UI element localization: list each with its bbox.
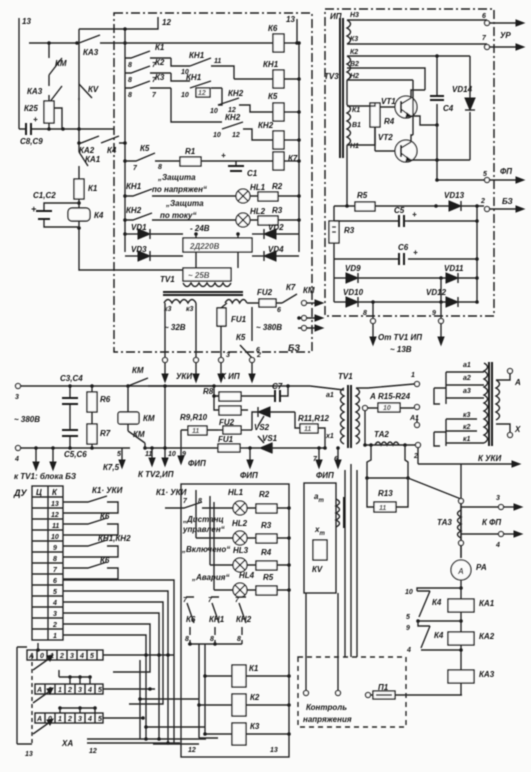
dashed box BZ (protection block) [114,13,312,352]
svg-text:FU1: FU1 [231,315,247,324]
svg-text:11: 11 [304,426,311,433]
svg-text:по напряжен“: по напряжен“ [152,185,207,194]
relay coil KN1 [234,60,299,88]
terminals in kontrol box [304,691,309,696]
terminal 3 K IP [218,352,230,382]
contact KN1 (10-11) [181,51,234,79]
left bracket XA [17,647,33,758]
svg-text:R13: R13 [378,489,393,498]
node 13 (left rail) [19,17,31,129]
svg-text:2: 2 [256,352,261,359]
terminal circle top TA3 [459,499,464,504]
svg-text:К1: К1 [249,664,259,673]
diode VD12 [426,288,479,307]
svg-text:К25: К25 [24,104,38,113]
svg-text:3: 3 [496,495,500,502]
resistor R9,R10 [180,413,218,435]
diode VD9 [334,264,441,283]
capacitor C8,C9 [19,115,44,146]
svg-text:8: 8 [185,636,189,643]
left rail x334 [334,206,347,302]
svg-text:КМ: КМ [303,286,315,295]
svg-text:8: 8 [128,77,132,84]
resistor K25 [24,95,62,129]
terminal 2 BZ [480,197,524,212]
svg-text:ФИП: ФИП [316,471,334,480]
svg-text:„Защита: „Защита [157,173,196,182]
svg-text:4: 4 [495,542,500,549]
contact K6 loop [63,512,118,535]
diode VD3 [125,245,183,261]
contact K4 lower [406,619,461,654]
svg-text:VS2: VS2 [254,423,270,432]
wire winding taps down [165,303,196,357]
svg-text:11: 11 [214,58,221,65]
transistor VT1 [380,90,425,118]
svg-text:HL1: HL1 [228,488,244,497]
svg-text:5: 5 [90,653,94,660]
resistor R15-R24 [363,392,420,412]
svg-text:КН1: КН1 [263,60,279,69]
arrows down FIP 3 [313,446,341,480]
svg-text:В1: В1 [352,122,361,129]
thyristor VS2 [252,407,295,432]
TA2 bridge wires [365,445,410,480]
contact KN2 bottom [235,597,252,643]
svg-text:КА1: КА1 [85,155,101,164]
svg-text:4: 4 [406,647,411,654]
svg-text:КМ: КМ [143,414,155,423]
resistor R8b lower [212,394,248,415]
svg-text:КА3: КА3 [27,87,43,96]
mech link dashed [31,655,33,745]
TV3 winding K2-V2-N2 [347,49,359,80]
contact KA2 on y143 [79,136,99,155]
svg-text:8: 8 [363,310,367,317]
fuse P1 [366,683,463,699]
svg-text:А: А [28,653,34,660]
lamp HL2 ind [196,519,248,545]
svg-text:К5: К5 [268,92,278,101]
svg-text:„Авария“: „Авария“ [191,573,229,582]
switch arrow 3 [33,722,50,734]
fuse FU1 mid [218,435,246,452]
resistor R3 vertical [329,221,355,243]
wire y129 [44,128,114,130]
svg-text:+: + [33,115,38,124]
terminal UKI circles [163,358,199,363]
svg-text:3: 3 [53,611,57,618]
svg-text:КМ: КМ [133,430,145,439]
svg-text:УКИ: УКИ [176,372,192,381]
svg-text:+: + [31,204,37,214]
wire KA2 to KA3 [460,645,462,670]
contact K4 on y143 [101,136,125,155]
bottom rail wires [17,737,206,755]
vertical drop wires mid [345,464,357,657]
relay coil K2 bottom [232,693,291,716]
contact KV [79,84,99,100]
arrow down K TV2 IP [138,446,174,479]
contact KN1 lamp row [125,182,236,196]
svg-text:К ФП: К ФП [482,518,501,527]
inner verticals left of coils [196,490,232,738]
svg-text:3: 3 [78,687,82,694]
wire row6 staircase [63,580,174,743]
svg-text:КV: КV [88,85,99,94]
svg-text:КА2: КА2 [79,146,95,155]
svg-text:13: 13 [270,747,278,754]
svg-text:От ТV1 ИП: От ТV1 ИП [378,333,422,342]
connector DU table [13,486,63,640]
svg-text:а1: а1 [463,362,471,369]
node 12 stub [125,17,171,29]
svg-text:ФИП: ФИП [188,459,206,468]
svg-text:2: 2 [413,453,418,460]
svg-text:К4: К4 [432,598,442,607]
svg-text:Н2: Н2 [350,73,359,80]
svg-text:13: 13 [22,17,31,26]
svg-text:к1: к1 [463,436,471,443]
contact K3 [125,73,171,99]
svg-text:к3: к3 [186,306,194,313]
svg-text:R6: R6 [100,395,111,404]
svg-text:К5: К5 [236,333,246,342]
svg-text:КА3: КА3 [479,670,495,679]
svg-text:1: 1 [58,687,62,694]
svg-text:а1: а1 [326,392,334,399]
svg-text:~ 380В: ~ 380В [14,415,40,424]
svg-text:10: 10 [383,405,391,412]
node 13 entering box top [286,15,297,43]
current transformer TA2 [363,410,420,460]
current transformer TA3 [437,504,464,558]
wire 2D220V to TV1 [196,234,238,268]
transistor VT2 [375,80,417,162]
resistor R3 [250,206,299,225]
junction mid rails [439,276,443,280]
relay coil KA1 [448,599,495,612]
wire K UKI [418,448,520,467]
numbers on wire y448 [145,451,186,458]
text protection voltage [152,173,207,194]
svg-text:А: А [36,716,42,723]
svg-text:ТА2: ТА2 [374,430,389,439]
contact KM [49,43,67,83]
bus vertical x79 [78,29,80,152]
contact KN1,KN2 loop [63,534,131,557]
bottom rails [140,660,205,739]
svg-text:К1: К1 [352,107,360,114]
svg-text:5: 5 [117,451,121,458]
wire KN1 row [218,88,222,105]
branch 3 K FP [461,495,522,510]
switch arrow 1 [33,658,50,670]
svg-text:а3: а3 [463,388,471,395]
fuse FU2 mid [218,418,252,434]
svg-text:10: 10 [213,132,221,139]
resistor R5 ind [247,573,291,595]
arrows down C5,C6 [33,446,87,470]
svg-text:3: 3 [15,394,19,401]
svg-text:С7: С7 [272,382,283,391]
relay coil K6 [268,24,299,52]
svg-text:К3: К3 [350,36,358,43]
svg-text:2: 2 [480,198,485,205]
wire top horizontal y43 [29,42,79,44]
svg-text:Х: Х [514,425,521,434]
contact KN2 lamp row [125,206,236,220]
wire TV1 sec top to terminal 1 [356,372,420,388]
wire K1 row to KN1 [171,58,190,66]
wire row2 staircase [63,624,150,672]
svg-text:- 24В: - 24В [190,224,210,233]
svg-text:13: 13 [25,751,33,758]
wire emitters to FP [437,125,470,180]
svg-text:R3: R3 [261,521,272,530]
wire y29 to box1 [79,28,125,30]
terminal 7 UR [482,31,524,50]
contact K2 [125,58,171,84]
svg-text:к ТV1: блока БЗ: к ТV1: блока БЗ [14,472,76,481]
svg-text:КН1: КН1 [126,182,142,191]
svg-text:КМ: КМ [132,366,144,375]
svg-text:5: 5 [98,687,102,694]
svg-text:R7: R7 [100,429,111,438]
capacitor C6 [334,243,477,265]
bus PA vertical [460,464,462,558]
contact KN1 (10-12) [171,73,222,99]
svg-text:КН2: КН2 [225,113,241,122]
svg-text:R3: R3 [344,226,355,235]
svg-text:К6: К6 [268,24,278,33]
svg-text:К ТV2,ИП: К ТV2,ИП [138,470,174,479]
svg-text:1: 1 [411,372,415,379]
relay coil K7 [273,152,299,170]
svg-text:Н3: Н3 [350,12,359,19]
block 2D220V [183,238,252,252]
resistor R8 [203,384,268,401]
wire y43 through box [114,42,273,44]
lamp HL4 ind [214,571,255,597]
fuse FU2 [247,288,282,307]
text Ot TV1 IP [378,333,422,354]
svg-text:КМ: КМ [55,59,67,68]
relay coil KN2 [258,121,299,149]
svg-text:С8,С9: С8,С9 [20,137,43,146]
svg-text:FU1: FU1 [218,435,234,444]
svg-text:VD9: VD9 [345,264,361,273]
wire row5 staircase [63,591,168,743]
contact K6 bottom [183,597,196,643]
svg-text:8: 8 [128,92,132,99]
box a_m x_m winding [304,483,344,593]
svg-text:HL2: HL2 [250,207,266,216]
svg-text:КН1: КН1 [186,73,202,82]
svg-text:11: 11 [192,428,199,435]
svg-text:К1: К1 [88,184,98,193]
svg-text:R2: R2 [259,490,270,499]
svg-text:4: 4 [87,716,92,723]
relay coil KM [118,386,155,431]
diode VD4 [252,245,299,261]
wire KA3 down to P1 [460,683,462,695]
svg-text:КН2: КН2 [258,121,274,130]
capacitor C4 [430,56,454,127]
svg-text:+: + [221,151,226,160]
relay coil K1 bottom [232,664,291,687]
svg-text:2: 2 [52,622,57,629]
svg-text:С1: С1 [247,169,258,178]
svg-text:VS1: VS1 [262,434,278,443]
svg-text:+: + [413,248,418,257]
arrows down FIP 1 [178,430,206,468]
relay coil K5 [268,92,299,121]
resistor R13 [367,478,408,512]
resistor R6 [87,384,111,424]
box indication block [181,484,289,757]
svg-text:РА: РА [476,563,487,572]
wire row3 staircase [63,613,159,739]
svg-text:К7,5: К7,5 [103,463,120,472]
svg-text:R5: R5 [357,191,368,200]
svg-text:VD12: VD12 [426,288,447,297]
svg-text:R1: R1 [185,147,196,156]
resistor R2 [250,182,299,201]
svg-text:К2: К2 [350,49,358,56]
lamp HL3 ind [210,546,249,572]
svg-text:С5,С6: С5,С6 [64,450,87,459]
svg-text:1: 1 [53,633,57,640]
capacitor C1,C2 [31,191,79,227]
svg-text:R4: R4 [261,548,272,557]
svg-text:9: 9 [432,310,436,317]
svg-text:К7: К7 [286,283,296,292]
svg-text:БЗ: БЗ [288,343,300,353]
terminal 4 input [14,446,130,464]
wire to PA bus diagonal [408,478,461,499]
svg-text:VD13: VD13 [444,191,465,200]
svg-text:12: 12 [198,90,206,97]
rail right x299 [298,43,300,252]
svg-text:8: 8 [53,556,57,563]
wire PA to KA1 [460,580,462,599]
diode VD14 [435,54,475,160]
svg-text:5: 5 [98,716,102,723]
text protection current [160,199,204,220]
svg-text:2: 2 [67,716,72,723]
wire row4 staircase [63,602,163,704]
svg-text:К УКИ: К УКИ [478,454,501,463]
svg-text:6: 6 [482,13,486,20]
svg-text:ТV3: ТV3 [324,72,339,81]
svg-text:12: 12 [89,748,97,755]
svg-text:„Защита: „Защита [165,199,204,208]
svg-text:2: 2 [59,653,64,660]
svg-text:КН2: КН2 [126,206,142,215]
svg-text:HL4: HL4 [239,571,255,580]
svg-text:ТV1: ТV1 [160,275,175,284]
svg-text:8: 8 [158,164,162,171]
svg-text:В2: В2 [350,61,359,68]
arrows down FIP 2 [240,446,258,480]
svg-text:12: 12 [162,18,171,27]
terminal 8 [363,300,376,345]
svg-text:С6: С6 [398,243,409,252]
contact KN1 bottom [208,597,225,643]
terminal 5 FP [435,167,524,183]
contact K5 bottom [236,307,260,358]
terminal 9 [432,302,444,345]
svg-text:11: 11 [379,505,386,512]
arrow down K7,5 [103,448,125,472]
svg-text:13: 13 [286,15,295,24]
TV1 secondary right winding [225,300,247,304]
vertical UKI through-wire [162,384,168,466]
svg-text:+: + [412,210,417,219]
svg-text:FU2: FU2 [257,288,273,297]
arrows UKI [162,363,199,382]
resistor R5 [347,191,436,211]
svg-text:управлен“: управлен“ [182,525,225,534]
svg-text:К5: К5 [140,144,150,153]
switch row A2 [35,670,155,694]
svg-text:2Д220В: 2Д220В [189,242,220,251]
contact KM top [126,366,214,388]
switch arrow 2 [33,691,50,703]
svg-text:ТА3: ТА3 [437,518,452,527]
contact K6 loop 2 [63,556,118,579]
svg-text:а2: а2 [463,375,471,382]
svg-text:БЗ: БЗ [502,197,513,206]
svg-text:VТ1: VТ1 [381,97,396,106]
svg-text:8: 8 [210,636,214,643]
text Kontrol napryazheniya [303,703,352,724]
svg-text:К4: К4 [94,211,104,220]
svg-text:К3: К3 [155,73,165,82]
svg-text:А: А [457,567,464,576]
svg-text:3: 3 [78,716,82,723]
contact KA3 (top, on y43 wire) [79,35,114,57]
wire N1 down to R5 [346,80,348,206]
svg-text:КН2: КН2 [228,89,244,98]
wire bus x79 down [79,199,183,270]
diode VD11 [441,264,479,283]
resistor R11,R12 [295,412,330,450]
svg-text:4: 4 [14,456,19,463]
svg-text:КН1: КН1 [189,51,205,60]
resistor K1 [74,179,98,199]
svg-text:HL2: HL2 [232,519,248,528]
contact K4 upper [405,588,461,621]
svg-text:3: 3 [226,352,230,359]
VT emitters join [410,116,437,160]
svg-text:К1· УКИ: К1· УКИ [156,488,187,497]
relay coil K3 bottom [232,722,291,745]
lamp HL2 [236,207,266,227]
fuse FU1 [217,303,247,357]
dashed box kontrol napryazheniya [298,657,406,727]
wire row1 staircase [63,635,146,739]
svg-text:12: 12 [188,747,196,754]
svg-text:1: 1 [58,716,62,723]
lamp HL1 [236,183,266,203]
svg-text:К1· УКИ: К1· УКИ [92,486,123,495]
wires to kontrol box [306,593,338,690]
capacitor C3,C4 [60,374,83,450]
svg-text:8: 8 [128,62,132,69]
switch row A3 [35,706,145,723]
